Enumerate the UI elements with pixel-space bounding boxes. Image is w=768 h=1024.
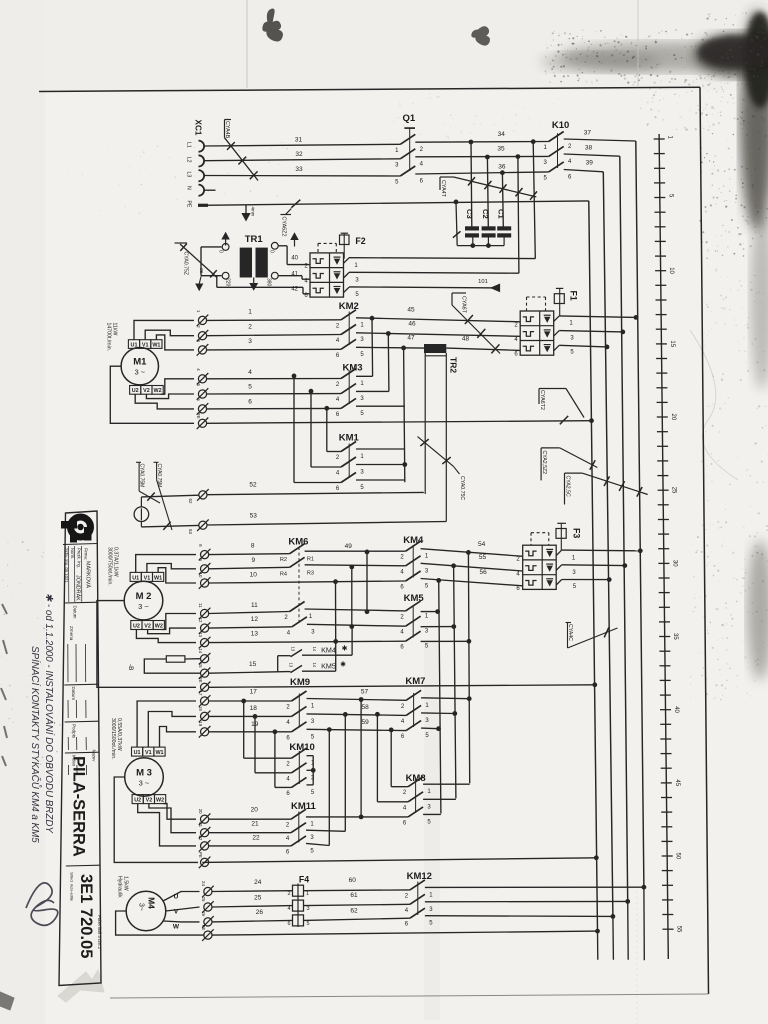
TR1 secondary terminals 0/380 [271, 242, 278, 249]
wire 58 [307, 714, 407, 716]
contactor KM11 [286, 801, 317, 855]
KM11 output columns from 58/59 [344, 714, 346, 831]
wire 32 [204, 159, 400, 161]
wire 31 [204, 144, 400, 146]
M1 PE lead [110, 366, 194, 423]
bus line 4 (wire 37) [636, 141, 644, 887]
svg-text:M4: M4 [147, 897, 157, 909]
M1 terminal box U2 V2 W2 [130, 386, 164, 395]
M3 panel terminals wires 17-22,PE [198, 691, 210, 869]
terminal strip XC1 [186, 120, 209, 208]
F1 output wires to buses [559, 316, 636, 318]
svg-text:42: 42 [291, 286, 298, 292]
svg-text:14: 14 [312, 663, 317, 668]
svg-text:14: 14 [312, 647, 317, 652]
capacitor C2 [481, 209, 496, 246]
svg-text:CYA4C: CYA4C [567, 624, 573, 641]
cable flag CYA4T over capacitor feeders [440, 176, 454, 178]
svg-text:17: 17 [250, 689, 258, 696]
svg-text:W1: W1 [155, 750, 163, 756]
svg-text:V1: V1 [144, 575, 151, 581]
svg-text:3 ~: 3 ~ [138, 602, 149, 611]
svg-text:25: 25 [201, 897, 206, 902]
fuse/breaker F2 [304, 233, 365, 299]
fold crease lines [246, 0, 248, 88]
wire 49 [305, 550, 406, 552]
wire 25 [212, 906, 292, 907]
svg-text:5: 5 [248, 384, 252, 391]
svg-text:54: 54 [478, 541, 486, 548]
svg-text:CYA6T: CYA6T [461, 296, 467, 314]
aux risers to wires 12/13 [351, 627, 353, 656]
svg-text:CYA0.75Z: CYA0.75Z [183, 252, 189, 276]
wire 34 [415, 141, 548, 144]
svg-text:13: 13 [251, 631, 259, 638]
svg-text:36: 36 [498, 163, 506, 170]
svg-text:F3: F3 [572, 528, 582, 538]
svg-text:59: 59 [361, 719, 369, 726]
svg-text:380: 380 [266, 278, 272, 287]
wire 39 [564, 170, 604, 172]
svg-text:CYA0.75M: CYA0.75M [139, 464, 145, 488]
wire 57 [307, 699, 407, 701]
wire 26 [212, 920, 292, 922]
svg-text:22: 22 [252, 835, 260, 842]
svg-text:L2: L2 [186, 157, 192, 163]
svg-text:W2: W2 [156, 798, 164, 804]
svg-text:Firma:: Firma: [84, 548, 89, 560]
svg-text:3~: 3~ [138, 903, 145, 911]
svg-text:CYA0.75M: CYA0.75M [156, 464, 162, 488]
contactor KM6 (rotor poles) [280, 536, 315, 636]
M2 terminal boxes [130, 572, 164, 629]
svg-text:PE: PE [201, 925, 206, 931]
svg-text:MARKOVÁ: MARKOVÁ [85, 561, 92, 588]
svg-text:CYA2,5Z2: CYA2,5Z2 [541, 451, 547, 475]
drawing frame bottom border [110, 994, 709, 998]
svg-text:K10: K10 [552, 120, 569, 131]
svg-text:220: 220 [225, 278, 231, 287]
svg-text:61: 61 [350, 892, 358, 899]
svg-text:3000/1500ot./min.: 3000/1500ot./min. [110, 718, 116, 760]
svg-text:12: 12 [251, 616, 259, 623]
wire 52 [140, 497, 142, 507]
bridge columns rows 8-11 / 9-12 / 10-13 [366, 552, 368, 612]
contactor K10 [544, 120, 573, 181]
svg-text:20: 20 [198, 809, 203, 814]
M3 PE lead [114, 777, 198, 862]
M1 PE wire to PE bus [207, 421, 592, 424]
svg-text:45: 45 [407, 306, 415, 313]
svg-text:35: 35 [672, 633, 678, 640]
svg-text:19: 19 [198, 721, 203, 726]
wire 101 with reference arrow [349, 287, 500, 288]
svg-text:R4: R4 [280, 571, 287, 577]
KM10 tap feeders [243, 701, 245, 758]
KM8 input feeders from 57/58/59 [360, 700, 362, 817]
svg-text:6: 6 [287, 921, 290, 927]
handwritten signature [26, 883, 58, 925]
svg-text:R1: R1 [307, 557, 314, 563]
svg-text:PILA-SERRA: PILA-SERRA [70, 756, 88, 857]
M1 panel terminals wires 1-6,PE [196, 310, 208, 429]
ground symbol 4mm [245, 205, 247, 214]
svg-text:15: 15 [198, 663, 203, 668]
wire 41 [278, 275, 302, 277]
cable flag CYA4B on mains [225, 119, 232, 121]
svg-text:F1: F1 [569, 291, 579, 301]
KM1 output tie [356, 448, 405, 450]
svg-text:0: 0 [269, 250, 275, 253]
fuse/breaker F1 [514, 288, 578, 357]
contactor KM1 [336, 433, 365, 493]
M4 PE lead [116, 911, 204, 935]
svg-text:PE: PE [198, 677, 203, 683]
KM10 output tie [307, 755, 314, 757]
column wire 47 to KM3/KM1 outputs [404, 348, 405, 482]
motor M3 [125, 758, 164, 797]
svg-text:CYA4B: CYA4B [224, 121, 230, 139]
wire 45 [356, 318, 520, 322]
KM8 output stubs [423, 783, 470, 785]
wire 2 [207, 335, 341, 336]
svg-text:8: 8 [251, 542, 255, 549]
svg-text:20: 20 [251, 807, 259, 814]
tape arrow artifact bottom-left [58, 970, 104, 1002]
svg-text:KM7: KM7 [405, 676, 425, 687]
svg-text:4mm: 4mm [251, 207, 256, 217]
wire 17 [209, 700, 292, 702]
svg-text:45: 45 [674, 779, 680, 786]
KM3 output columns to wires 45/46 [371, 318, 374, 376]
winding columns between KM4/KM5/KM7/KM8 [468, 552, 469, 783]
M2 PE wire to PE bus [209, 685, 595, 688]
svg-text:KM1: KM1 [339, 433, 360, 444]
motor M2 [124, 581, 163, 620]
KM12 output wires to buses [425, 886, 644, 888]
svg-text:Podpis: Podpis [71, 724, 76, 739]
PE wire from XC1 [203, 201, 589, 205]
svg-text:Q1: Q1 [403, 113, 416, 124]
svg-text:TR1: TR1 [245, 234, 264, 245]
svg-text:2: 2 [248, 323, 252, 330]
svg-text:W1: W1 [154, 575, 162, 581]
F2 return column wire (to wire 34) [533, 142, 535, 259]
wire 55 [421, 563, 523, 571]
KM1 input feeders from wires 6/5/4 [326, 408, 328, 451]
svg-text:0: 0 [218, 250, 224, 253]
svg-text:31: 31 [295, 137, 303, 144]
svg-text:9: 9 [251, 557, 255, 564]
F3 output wires to buses [562, 549, 641, 552]
svg-text:SPÍNACÍ KONTAKTY STYKAČŮ KM4 a: SPÍNACÍ KONTAKTY STYKAČŮ KM4 a KM5 [29, 646, 41, 843]
wire 24 [212, 890, 292, 893]
svg-text:46: 46 [408, 320, 416, 327]
svg-text:57: 57 [361, 689, 369, 696]
drawing frame top border [39, 87, 700, 91]
svg-text:48: 48 [462, 336, 470, 343]
svg-text:U2: U2 [132, 388, 139, 394]
svg-text:C3: C3 [465, 209, 474, 219]
svg-text:26: 26 [201, 911, 206, 916]
svg-text:R2: R2 [280, 557, 287, 563]
svg-text:M1: M1 [133, 357, 147, 368]
svg-text:25: 25 [671, 487, 677, 494]
cable flags CYA0.75M [136, 461, 141, 463]
svg-text:53: 53 [188, 529, 193, 534]
arrow symbol above wire 40 [294, 238, 296, 247]
svg-text:3E1 720.05: 3E1 720.05 [77, 874, 95, 958]
wire 21 [209, 832, 291, 834]
svg-text:21: 21 [198, 822, 203, 827]
svg-text:14700t./min.: 14700t./min. [106, 323, 112, 352]
wire 22 [209, 845, 291, 847]
wire 38 [564, 154, 620, 156]
title block revision table [68, 626, 87, 775]
wires 11/12 continuation to KM5 [305, 609, 406, 611]
svg-text:U: U [174, 894, 179, 901]
svg-text:✱: ✱ [340, 660, 346, 668]
svg-text:49: 49 [345, 543, 353, 550]
svg-text:2: 2 [287, 891, 290, 897]
svg-text:V2: V2 [146, 798, 153, 804]
contactor KM2 [336, 301, 365, 359]
cable flag CYA2.5C [565, 472, 583, 474]
wire 47 [356, 346, 424, 349]
cable flag CYA6Z2 on PE [291, 200, 300, 208]
svg-text:15: 15 [249, 661, 257, 668]
svg-text:17: 17 [198, 691, 203, 696]
drawing frame right border [700, 87, 709, 994]
svg-text:V1: V1 [142, 342, 149, 348]
svg-text:53: 53 [250, 513, 258, 520]
fuse F4 [287, 875, 309, 928]
bus line 2 (wire 39) [603, 172, 613, 917]
transformer TR1 [240, 234, 268, 290]
svg-text:11: 11 [251, 602, 258, 609]
svg-text:18: 18 [198, 706, 203, 711]
svg-text:98: 98 [199, 268, 204, 274]
ink blob artifact top-left [263, 9, 283, 41]
M3 terminal boxes [132, 747, 166, 804]
svg-text:Počet listů 3 List 2: Počet listů 3 List 2 [97, 915, 102, 950]
svg-text:22: 22 [198, 835, 203, 840]
M1 leads to terminals [134, 320, 194, 339]
svg-text:34: 34 [498, 131, 506, 138]
svg-text:U2: U2 [133, 623, 140, 629]
contactor KM3 [336, 363, 365, 418]
svg-text:18: 18 [250, 705, 258, 712]
capacitor common bus to PE [457, 245, 504, 247]
switch Q1 [395, 113, 424, 186]
wire 40 [278, 245, 287, 247]
svg-text:21: 21 [251, 820, 259, 827]
svg-text:CYA2,5C: CYA2,5C [565, 476, 571, 497]
svg-text:-B: -B [127, 664, 134, 671]
capacitor C3 [465, 209, 479, 246]
title block frame [59, 511, 101, 986]
svg-text:V1: V1 [145, 750, 152, 756]
svg-text:Prezk. Ing.: Prezk. Ing. [77, 548, 82, 568]
svg-text:41: 41 [291, 272, 298, 278]
M3 leads [137, 701, 196, 747]
wire 11 [209, 612, 290, 614]
svg-text:101: 101 [478, 279, 488, 285]
wire 56 [421, 579, 523, 586]
svg-text:5: 5 [306, 921, 309, 927]
svg-text:KM4: KM4 [403, 535, 424, 546]
svg-text:55: 55 [479, 554, 487, 561]
M4 PE wire to PE bus [212, 931, 597, 935]
svg-text:3000/750ot./min.: 3000/750ot./min. [107, 547, 113, 586]
wire 36 [415, 172, 548, 174]
svg-text:✱: ✱ [342, 645, 348, 653]
wire 3 [207, 348, 341, 351]
svg-text:15: 15 [669, 340, 675, 347]
svg-text:F2: F2 [355, 236, 365, 246]
wire N stub [204, 189, 216, 191]
svg-text:KM5: KM5 [404, 593, 425, 604]
contactor KM4 [400, 535, 429, 591]
svg-text:10: 10 [198, 573, 203, 578]
company logo [61, 517, 92, 543]
svg-text:U2: U2 [134, 798, 141, 804]
svg-text:Zmena: Zmena [69, 626, 74, 641]
svg-text:Datum: Datum [73, 606, 78, 619]
M4 leads U V W [163, 892, 200, 902]
svg-text:47: 47 [407, 334, 415, 341]
svg-text:14: 14 [198, 648, 203, 653]
motor M1 [121, 348, 158, 385]
auxiliary contact KM5* [288, 660, 346, 672]
M1 terminal box U1 V1 W1 [128, 340, 162, 349]
svg-text:6: 6 [248, 399, 252, 406]
auxiliary contact KM4* [278, 645, 352, 657]
svg-text:1: 1 [248, 308, 252, 315]
svg-text:3: 3 [306, 906, 309, 912]
svg-text:Hydraulik: Hydraulik [117, 876, 123, 898]
fuse/breaker F3 [516, 523, 581, 592]
bus bottom tails [597, 931, 599, 960]
svg-text:10: 10 [250, 572, 258, 579]
M2 panel terminals wires 8-15,PE [198, 544, 210, 693]
svg-text:Střed. mzs-edite: Střed. mzs-edite [70, 872, 75, 902]
svg-text:13: 13 [289, 663, 294, 668]
contactor KM5 [400, 593, 429, 651]
wire 13 [209, 641, 406, 642]
svg-text:L3: L3 [186, 172, 192, 178]
svg-text:39: 39 [586, 160, 594, 167]
wire 1 [207, 319, 341, 322]
svg-text:U1: U1 [132, 575, 139, 581]
svg-text:11: 11 [198, 603, 203, 608]
svg-text:U1: U1 [131, 342, 138, 348]
F2 return column wire (to wire 35) [518, 157, 519, 274]
svg-text:C1: C1 [497, 209, 506, 219]
contactor KM8 [403, 773, 432, 826]
KM3 output stubs [356, 375, 373, 377]
svg-text:JONDRÁK: JONDRÁK [75, 575, 82, 601]
M4 panel terminals 24/25/26/PE [201, 881, 214, 941]
wire 37 [564, 139, 636, 141]
cable flag CYA0.75C on TR2 secondary [418, 437, 454, 467]
wire 46 [356, 333, 520, 337]
contactor KM9 [286, 677, 315, 741]
svg-text:CYA6Z2: CYA6Z2 [281, 217, 287, 237]
svg-text:13: 13 [291, 647, 296, 652]
svg-text:40: 40 [291, 256, 298, 262]
wire 35 [415, 155, 548, 157]
F2 output wire to wire 35 column [349, 271, 519, 274]
capacitor feeder columns [470, 142, 473, 227]
svg-text:TR2: TR2 [449, 357, 459, 373]
svg-text:12: 12 [198, 618, 203, 623]
bus line 3 (wire 38) [620, 156, 628, 901]
svg-text:40: 40 [673, 706, 679, 713]
wire 15 to aux contacts [209, 672, 288, 674]
PE bus (vertical) [589, 201, 598, 931]
motor M4 [126, 891, 166, 931]
cable flag CYA6T near F1 [452, 292, 466, 294]
ruler scale column [654, 134, 682, 959]
svg-text:V2: V2 [144, 623, 151, 629]
svg-text:CYA0.75C: CYA0.75C [459, 476, 465, 500]
wire 54 [421, 549, 523, 557]
svg-text:C2: C2 [481, 209, 490, 219]
svg-text:CYA6T2: CYA6T2 [539, 390, 545, 410]
svg-text:KM12: KM12 [407, 871, 432, 882]
svg-text:W2: W2 [154, 388, 162, 394]
svg-text:V: V [174, 909, 179, 916]
wire 61 [304, 904, 410, 905]
svg-text:3 ~: 3 ~ [134, 368, 145, 377]
svg-text:26: 26 [256, 909, 264, 916]
svg-text:KM9: KM9 [290, 677, 310, 688]
svg-text:W1: W1 [152, 342, 160, 348]
svg-text:4: 4 [287, 906, 290, 912]
wire 48 [446, 348, 520, 350]
KM7 output stubs to columns [421, 697, 469, 700]
svg-text:37: 37 [584, 130, 592, 137]
svg-text:PE: PE [186, 201, 192, 208]
wire 60 [304, 889, 410, 892]
brake coil B1 [134, 507, 149, 522]
svg-text:M 2: M 2 [136, 591, 152, 602]
svg-text:20: 20 [670, 414, 676, 421]
cable flag CYA0.75Z on TR1 primary [175, 242, 188, 244]
svg-text:PE: PE [196, 413, 201, 419]
scan noise top-right dark band [0, 10, 768, 765]
aux bracket tie to wire 15 [277, 656, 279, 672]
wire 4 [207, 378, 341, 380]
ink blob artifact top-middle [472, 27, 490, 45]
svg-text:13: 13 [198, 632, 203, 637]
M2 PE lead [97, 601, 196, 688]
svg-text:1: 1 [306, 891, 309, 897]
wire 5 [207, 393, 341, 395]
svg-text:F4: F4 [299, 875, 309, 885]
svg-text:R3: R3 [307, 570, 314, 576]
svg-text:KM4: KM4 [321, 645, 336, 654]
svg-text:30: 30 [671, 560, 677, 567]
svg-text:Nazev: Nazev [92, 750, 97, 763]
cable flag CYA6T2 [539, 388, 566, 390]
svg-text:33: 33 [295, 166, 303, 173]
wire 18 [209, 715, 292, 717]
M3 PE wire to PE bus [202, 858, 596, 863]
wire 42 [216, 276, 218, 288]
svg-text:KM6: KM6 [288, 536, 308, 547]
